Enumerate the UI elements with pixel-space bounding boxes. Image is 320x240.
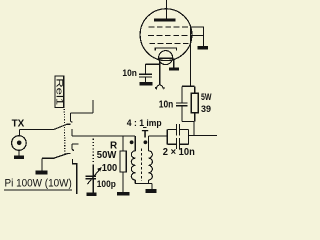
wire NC stub S1b	[72, 143, 79, 145]
wire transformer to block	[149, 135, 168, 137]
switch S1b common stub	[42, 157, 55, 159]
capacitor lower 10n plates	[176, 138, 177, 149]
core dashed line	[141, 149, 143, 182]
phase dot primary	[130, 140, 134, 144]
phase dot secondary	[144, 140, 148, 144]
svg-text:5W: 5W	[201, 92, 212, 103]
svg-text:T: T	[142, 128, 149, 140]
TX coax connector	[12, 136, 27, 151]
svg-text:Pi 100W (10W): Pi 100W (10W)	[5, 178, 72, 190]
svg-text:2 × 10n: 2 × 10n	[163, 147, 195, 158]
trimmer C 100p plates	[85, 176, 96, 177]
ground under trimmer	[87, 193, 97, 196]
wire output to right edge	[188, 135, 217, 137]
2x10n block left vertical	[166, 129, 168, 144]
svg-text:10n: 10n	[122, 68, 137, 79]
S1a upper contact hook	[70, 113, 72, 122]
ground TX	[14, 156, 24, 159]
wire g2 to bus	[190, 34, 204, 36]
wire bottom rail	[167, 143, 176, 145]
wire connector ground stem	[18, 150, 20, 156]
wire RC drop to line	[193, 121, 195, 135]
S1b lower contact wire	[72, 159, 76, 194]
secondary winding	[148, 151, 152, 180]
wire cap rail	[181, 86, 183, 102]
winding bottom leads	[134, 180, 136, 183]
svg-text:100: 100	[102, 163, 118, 174]
S1b upper contact hook	[72, 144, 74, 150]
cathode chord line	[159, 57, 174, 59]
wire RC bottom	[182, 120, 194, 122]
wire g1 to bus	[190, 26, 204, 28]
secondary top lead	[148, 136, 150, 151]
beam plates bracket	[155, 48, 176, 51]
wire grid tie down to RC	[189, 27, 191, 86]
ground grid bus	[198, 46, 209, 49]
anode plate bar	[154, 19, 175, 22]
trimmer stem	[92, 165, 94, 176]
ground under R	[117, 192, 129, 196]
2x10n right vertical	[187, 129, 189, 144]
svg-text:Rel1: Rel1	[55, 78, 65, 105]
relay Rel1 coil box	[55, 76, 64, 108]
resistor 39 box	[191, 93, 198, 113]
ground transformer	[146, 189, 157, 193]
underline Pi label	[4, 189, 72, 191]
trimmer dotted link	[92, 139, 94, 165]
svg-text:TX: TX	[12, 118, 25, 129]
capacitor upper 10n plates	[176, 124, 177, 135]
wire cathode lead down	[159, 58, 161, 85]
transformer T primary top lead	[134, 136, 136, 151]
trimmer arrow	[87, 169, 100, 184]
wire anode lead to top edge	[165, 0, 167, 19]
wire grid bus down	[202, 27, 204, 46]
ground S1b	[36, 170, 48, 174]
resistor 39 leads	[194, 86, 196, 93]
wire main line to transformer	[72, 135, 135, 137]
resistor R box	[120, 151, 126, 172]
wire NC stub	[70, 112, 93, 114]
wire transformer bottom	[135, 182, 152, 184]
resistor R top lead	[122, 136, 124, 151]
ground cathode right	[169, 67, 179, 70]
RC network wire top	[182, 85, 195, 87]
relay actuation dotted line	[63, 109, 66, 155]
svg-text:50W: 50W	[97, 150, 117, 161]
wire top rail	[167, 128, 176, 130]
wire cathode to C 10n	[146, 63, 160, 65]
svg-text:39: 39	[201, 104, 211, 115]
grid g2 dashed row	[148, 34, 190, 36]
wire connector stem up	[19, 130, 21, 136]
capacitor C 10n cathode bypass	[139, 74, 152, 75]
svg-text:10n: 10n	[159, 100, 174, 111]
S1a lower contact stub	[71, 129, 73, 136]
svg-text:100p: 100p	[97, 179, 116, 190]
wire cathode right to ground	[173, 58, 175, 67]
ground under 10n	[139, 82, 152, 86]
switch S1a blade	[54, 124, 71, 129]
tube V1 envelope	[140, 9, 192, 61]
switch S1b blade	[55, 153, 71, 158]
grid g1 dashed row	[149, 26, 191, 28]
capacitor C 10n grid	[176, 102, 188, 103]
heater filament symbol	[156, 85, 163, 88]
primary winding	[131, 151, 135, 180]
cathode pinch circle	[159, 51, 173, 65]
grid g3 dashed row	[149, 43, 190, 45]
wire TX to switch	[20, 129, 54, 131]
wire down to cap	[145, 64, 147, 73]
resistor R bottom lead	[122, 172, 124, 192]
underline under 1	[143, 126, 146, 128]
